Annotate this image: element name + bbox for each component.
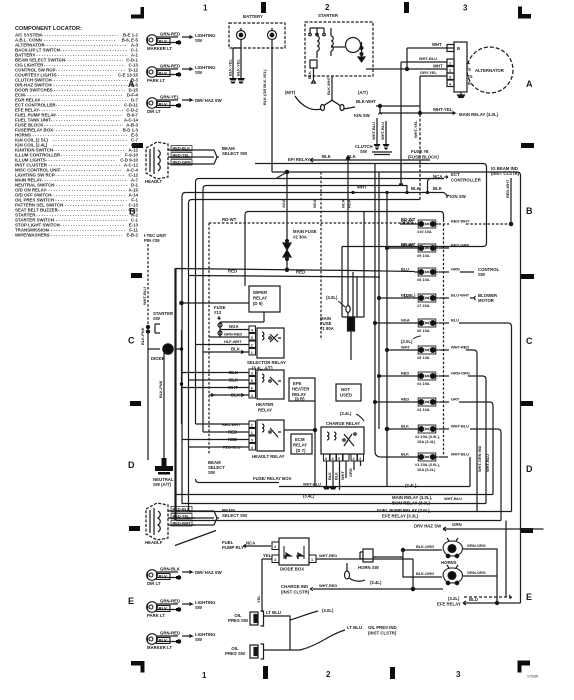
svg-text:E-B-2: E-B-2	[127, 233, 139, 238]
svg-text:DIR/ HAZ SW: DIR/ HAZ SW	[195, 98, 223, 103]
svg-text:0: 0	[338, 457, 340, 461]
fuse F10	[415, 220, 439, 228]
svg-text:GRN: GRN	[348, 468, 353, 477]
svg-text:STARTER: STARTER	[318, 13, 339, 18]
svg-text:GRN: GRN	[452, 522, 462, 527]
battery	[229, 23, 285, 48]
fuse F4	[415, 372, 439, 380]
connector dot of MARKER LT	[176, 40, 181, 44]
wire left bus verticals	[175, 268, 182, 520]
starter	[305, 22, 373, 76]
svg-text:(INST CLSTR): (INST CLSTR)	[281, 590, 310, 595]
svg-text:LT BLU: LT BLU	[266, 610, 281, 615]
svg-text:WHT-BLU: WHT-BLU	[451, 452, 469, 457]
battery ground wires BLK-YEL	[233, 40, 241, 79]
wire wiper relay drop	[220, 312, 264, 322]
svg-text:WHT-BLU: WHT-BLU	[142, 287, 147, 305]
junction dots on BLK row	[351, 191, 429, 194]
wire I-TEC dashed vertical	[147, 244, 149, 460]
arrow to LIGHTING	[182, 68, 192, 71]
svg-text:#8 10A: #8 10A	[417, 277, 430, 282]
tick mark bottom 2	[390, 667, 395, 679]
headlight symbol HEADLF	[146, 503, 168, 540]
svg-text:D: D	[128, 460, 135, 470]
svg-text:NOT: NOT	[341, 387, 350, 392]
svg-text:(3.0L): (3.0L)	[322, 608, 334, 613]
battery positive wire down	[271, 40, 273, 173]
svg-text:WHT-BLU: WHT-BLU	[451, 424, 469, 429]
svg-text:#13: #13	[214, 310, 222, 315]
wire EFE heater drop	[284, 401, 317, 487]
svg-text:WHT-RED: WHT-RED	[319, 583, 337, 588]
svg-text:PIN #29: PIN #29	[144, 238, 160, 243]
svg-text:(A/T): (A/T)	[358, 90, 368, 95]
arrow to BEAM SELECT SW	[214, 511, 219, 525]
svg-text:GRN-RED: GRN-RED	[224, 332, 242, 337]
charge relay box	[321, 427, 364, 454]
edge tick mark	[520, 401, 533, 406]
svg-text:BLK: BLK	[159, 574, 169, 579]
edge tick mark	[132, 143, 143, 148]
not used box	[336, 384, 361, 401]
wire efi relay row	[310, 158, 430, 162]
svg-text:BLK-YEL: BLK-YEL	[228, 59, 233, 76]
svg-text:SW: SW	[195, 637, 203, 642]
svg-text:CHARGE RELAY: CHARGE RELAY	[326, 421, 360, 426]
wire charge ind row	[310, 587, 443, 590]
svg-text:(FUSE BLOCK): (FUSE BLOCK)	[408, 155, 439, 160]
arrow to LIGHTING	[182, 36, 192, 39]
wire GRN-ORG 1	[463, 549, 497, 603]
svg-text:BLK: BLK	[159, 102, 169, 107]
svg-text:B: B	[457, 46, 460, 51]
wire ECT feed via corner	[428, 179, 445, 193]
svg-text:RED-WHT: RED-WHT	[451, 219, 470, 224]
arrow to DIR/ HAZ SW	[182, 99, 192, 102]
svg-text:FUSE/ RELAY BOX: FUSE/ RELAY BOX	[253, 476, 292, 481]
wire YEL to diode box	[262, 559, 272, 612]
heater relay feed wires	[182, 373, 250, 397]
svg-text:MARKER LT: MARKER LT	[147, 645, 172, 650]
oil pressure switch at y645	[250, 644, 264, 659]
wiper relay	[180, 286, 280, 312]
svg-text:SW: SW	[195, 605, 203, 610]
svg-text:BLK-PNK: BLK-PNK	[140, 327, 145, 345]
wire DRV HAZ SW row	[443, 527, 544, 531]
lamp connector MARKER LT	[147, 634, 158, 645]
svg-text:ECM: ECM	[295, 437, 305, 442]
svg-text:BOM RELAY (3.0L): BOM RELAY (3.0L)	[392, 501, 431, 506]
horn lower	[443, 565, 462, 585]
svg-text:HEATER: HEATER	[256, 402, 274, 407]
svg-text:BLK-ORG: BLK-ORG	[416, 571, 434, 576]
svg-text:BLU: BLU	[469, 597, 478, 602]
svg-text:10A (3.2L): 10A (3.2L)	[417, 467, 436, 472]
svg-text:HORN SW: HORN SW	[358, 565, 380, 570]
headlight symbol HEADLT	[146, 142, 168, 179]
svg-text:3: 3	[463, 4, 468, 13]
junction dots on bus	[180, 347, 183, 385]
svg-text:A: A	[526, 79, 533, 89]
svg-text:HEADLT: HEADLT	[145, 179, 162, 184]
wire RED-GRN of HEADLT	[168, 160, 214, 166]
heater relay pins	[249, 369, 256, 398]
svg-text:EFE RELAY (3.3L): EFE RELAY (3.3L)	[382, 514, 419, 519]
fuse F7	[415, 294, 439, 302]
wire BLK-WHT to junction	[376, 104, 420, 107]
starter main lead	[295, 76, 355, 111]
svg-text:#3 10A: #3 10A	[417, 407, 430, 412]
svg-text:SW: SW	[195, 70, 203, 75]
svg-text:RD-WT: RD-WT	[401, 217, 416, 222]
headlt relay pins	[249, 421, 256, 450]
svg-text:BLK: BLK	[433, 186, 443, 191]
svg-text:1: 1	[202, 671, 207, 680]
svg-text:(3.4L): (3.4L)	[405, 483, 417, 488]
svg-text:PARK LT: PARK LT	[147, 613, 165, 618]
svg-text:BLK: BLK	[401, 424, 409, 429]
svg-text:MAIN RELAY (3.0L),: MAIN RELAY (3.0L),	[392, 495, 432, 500]
svg-text:WIPER: WIPER	[253, 290, 268, 295]
svg-text:(9 R): (9 R)	[295, 397, 305, 402]
svg-text:WHT-BLU: WHT-BLU	[380, 122, 385, 140]
svg-text:MAIN FUSE: MAIN FUSE	[293, 229, 317, 234]
svg-text:GRN-BLK: GRN-BLK	[160, 567, 181, 572]
svg-text:2: 2	[251, 344, 253, 348]
wire GRN-YEL of DIR LT	[157, 100, 179, 108]
edge tick mark	[130, 401, 141, 406]
svg-text:3: 3	[251, 336, 253, 340]
svg-text:3: 3	[449, 76, 451, 80]
svg-text:BLK: BLK	[159, 638, 169, 643]
svg-text:MAIN RELAY (3.0L): MAIN RELAY (3.0L)	[459, 112, 498, 117]
svg-text:E: E	[526, 592, 532, 602]
svg-text:GRN-RED: GRN-RED	[160, 599, 180, 604]
svg-text:GRN-RED: GRN-RED	[160, 631, 180, 636]
svg-text:BLK-WHT: BLK-WHT	[356, 99, 376, 104]
svg-text:YEL: YEL	[263, 553, 272, 558]
svg-text:DIR/ HAZ SW: DIR/ HAZ SW	[195, 570, 223, 575]
svg-text:RED: RED	[401, 397, 409, 402]
wire nest top horizontals	[182, 164, 521, 604]
svg-text:DIR LT: DIR LT	[147, 581, 161, 586]
svg-text:2: 2	[325, 3, 330, 12]
charge relay grounds	[323, 487, 337, 490]
svg-text:WHT-YEL: WHT-YEL	[413, 120, 418, 138]
lamp connector DIR LT	[147, 570, 158, 581]
connector dot of DIR LT	[176, 575, 181, 579]
svg-text:WHT-BLU: WHT-BLU	[444, 496, 462, 501]
heater relay box	[257, 370, 284, 399]
svg-text:1: 1	[311, 558, 313, 562]
oil pressure switch at y612	[250, 611, 264, 626]
svg-text:HEADLF: HEADLF	[145, 540, 163, 545]
svg-text:3: 3	[456, 670, 461, 679]
svg-text:RELAY: RELAY	[293, 443, 307, 448]
wire LT BLU 1	[264, 611, 319, 628]
corner mark bottom-right	[518, 661, 531, 673]
svg-text:BLK: BLK	[327, 472, 332, 480]
svg-text:#1 80A: #1 80A	[320, 326, 334, 331]
svg-text:SELECT SW: SELECT SW	[222, 513, 248, 518]
wire RED-BLK of HEADLT	[168, 146, 214, 152]
svg-text:(INST CLSTR): (INST CLSTR)	[368, 631, 397, 636]
wire fuse13 to selector	[219, 330, 221, 338]
svg-text:BLU: BLU	[451, 318, 459, 323]
fuse F6	[415, 319, 439, 327]
fuse F9	[415, 244, 439, 252]
svg-text:IGN SW: IGN SW	[450, 194, 467, 199]
fuse F1	[415, 453, 439, 461]
svg-text:C: C	[128, 336, 135, 346]
svg-text:#10 10A: #10 10A	[417, 229, 432, 234]
svg-text:BLK (OR BLK-YEL): BLK (OR BLK-YEL)	[262, 69, 267, 105]
svg-text:E: E	[468, 81, 471, 86]
svg-text:HORNS: HORNS	[441, 560, 457, 565]
svg-text:S: S	[468, 67, 471, 72]
svg-text:GRN-RED: GRN-RED	[160, 32, 180, 37]
svg-text:EFI RELAY: EFI RELAY	[288, 157, 310, 162]
fuse left feed wires	[374, 224, 415, 457]
svg-text:BLK: BLK	[159, 71, 169, 76]
svg-text:WHT: WHT	[401, 345, 410, 350]
wire right vertical x506	[505, 521, 507, 598]
svg-text:NCA: NCA	[246, 541, 255, 546]
svg-text:GRN-ORG: GRN-ORG	[467, 543, 486, 548]
wire RED-WHT of HEADLF	[168, 521, 214, 527]
clutch switch grounds	[374, 144, 381, 150]
svg-text:SELECTOR RELAY: SELECTOR RELAY	[247, 360, 286, 365]
svg-text:BLK: BLK	[159, 39, 169, 44]
headlf2 bus links	[189, 511, 196, 525]
svg-text:WHT-BLU: WHT-BLU	[419, 56, 437, 61]
wire RED-YEL of HEADLF	[168, 514, 214, 520]
wire WHT-YEL main relay	[380, 76, 455, 200]
svg-text:BLK: BLK	[334, 472, 339, 480]
svg-text:WHT-BLU: WHT-BLU	[303, 482, 321, 487]
svg-text:MARKER LT: MARKER LT	[147, 46, 172, 51]
svg-text:IGN SW: IGN SW	[354, 113, 371, 118]
arrow to LIGHTING	[182, 635, 192, 638]
tick mark bottom 1	[263, 666, 268, 679]
svg-text:1: 1	[203, 4, 208, 13]
svg-text:HEATER: HEATER	[292, 387, 310, 392]
svg-text:RD-WT: RD-WT	[401, 242, 416, 247]
svg-text:HEADLT RELAY: HEADLT RELAY	[252, 454, 285, 459]
svg-text:BLU-WHT: BLU-WHT	[451, 293, 470, 298]
svg-text:2: 2	[449, 69, 451, 73]
edge tick mark	[131, 273, 142, 278]
svg-text:DIODE: DIODE	[151, 356, 165, 361]
svg-text:GRY-YEL: GRY-YEL	[420, 70, 438, 75]
lamp connector PARK LT	[147, 602, 158, 613]
starter switch	[146, 324, 160, 333]
svg-text:RED-WHT: RED-WHT	[173, 521, 192, 526]
clutch switch	[377, 118, 386, 144]
svg-text:IG: IG	[468, 74, 473, 79]
diode D1	[148, 344, 182, 354]
svg-text:NGA: NGA	[312, 199, 317, 208]
arrow to LIGHTING	[182, 603, 192, 606]
svg-text:(D 9): (D 9)	[253, 301, 263, 306]
svg-text:GRY: GRY	[451, 397, 460, 402]
svg-text:2: 2	[353, 457, 355, 461]
horn switch	[360, 549, 376, 562]
wire WHT to pin 2	[366, 68, 447, 70]
svg-text:PRES SW: PRES SW	[228, 618, 249, 623]
wire GRN-RED of MARKER LT	[157, 636, 179, 644]
svg-text:SELECT SW: SELECT SW	[222, 151, 248, 156]
selector relay pins	[249, 326, 256, 355]
svg-text:ALTERNATOR: ALTERNATOR	[475, 68, 505, 73]
lamp connector MARKER LT	[147, 35, 158, 46]
alternator connector	[447, 42, 467, 92]
svg-text:D: D	[526, 464, 533, 474]
svg-text:3: 3	[274, 558, 276, 562]
svg-text:COMPONENT LOCATOR:: COMPONENT LOCATOR:	[15, 26, 82, 32]
svg-text:SW: SW	[478, 272, 486, 277]
wire mid verticals	[342, 157, 403, 486]
svg-text:BLK: BLK	[231, 347, 241, 352]
wire IGN SW arrow	[444, 193, 450, 199]
wire nest bottom loops	[176, 479, 512, 521]
svg-text:RED: RED	[401, 371, 409, 376]
svg-text:GRN: GRN	[451, 267, 460, 272]
svg-text:RED-GRN: RED-GRN	[173, 160, 191, 165]
edge tick mark	[521, 274, 534, 279]
svg-text:BLK-ORG: BLK-ORG	[416, 544, 434, 549]
svg-text:GRN-ORG: GRN-ORG	[451, 371, 470, 376]
connector oval	[345, 563, 366, 581]
svg-text:PARK LT: PARK LT	[147, 78, 165, 83]
svg-text:BLK: BLK	[401, 452, 409, 457]
svg-text:RGA: RGA	[347, 199, 352, 208]
fuse F2	[415, 425, 439, 433]
wire GRN-RED of MARKER LT	[157, 37, 179, 45]
ground symbol battery left	[229, 78, 237, 84]
svg-text:WHT-BLU: WHT-BLU	[371, 122, 376, 140]
svg-text:MOTOR: MOTOR	[478, 298, 495, 303]
fuse right wires with cascade verticals	[439, 248, 512, 521]
svg-text:1: 1	[449, 62, 451, 66]
svg-text:FUEL PUMP RELAY (3.0L),: FUEL PUMP RELAY (3.0L),	[377, 508, 431, 513]
connector dot of PARK LT	[176, 72, 181, 76]
svg-text:WIPE/WASHERS: WIPE/WASHERS	[15, 233, 50, 238]
svg-text:RELAY: RELAY	[258, 408, 272, 413]
svg-text:PRES SW: PRES SW	[225, 651, 246, 656]
svg-text:RD-WT: RD-WT	[222, 217, 237, 222]
arrow to DIR/ HAZ SW	[182, 571, 192, 574]
svg-text:6: 6	[251, 387, 253, 391]
connector dot of DIR LT	[176, 103, 181, 107]
svg-text:SW: SW	[360, 149, 368, 154]
svg-text:WHT-BLU: WHT-BLU	[485, 454, 490, 472]
edge tick mark	[129, 526, 140, 531]
svg-text:#6 10A: #6 10A	[417, 328, 430, 333]
horn upper	[443, 538, 462, 558]
wires to horns	[373, 548, 442, 577]
charge relay bottom wires	[327, 461, 361, 490]
svg-text:NCA: NCA	[341, 199, 346, 208]
wire RED-BLK of HEADLF	[168, 507, 214, 513]
svg-text:ECT: ECT	[451, 172, 460, 177]
wire EFE relay row	[463, 601, 521, 605]
svg-text:RELAY: RELAY	[253, 296, 267, 301]
svg-text:WHT: WHT	[432, 42, 442, 47]
fuse F8	[415, 268, 439, 276]
svg-text:GRN-ORG: GRN-ORG	[467, 570, 486, 575]
svg-text:RED: RED	[296, 270, 305, 275]
svg-text:RED-YEL: RED-YEL	[173, 153, 191, 158]
svg-text:LT BLU: LT BLU	[347, 625, 362, 630]
svg-text:SW: SW	[153, 316, 161, 321]
svg-text:GRN-RED: GRN-RED	[160, 64, 180, 69]
wire GRN-RED of PARK LT	[157, 69, 179, 77]
wire GRN-BLK of DIR LT	[157, 572, 179, 580]
svg-text:#2 30A: #2 30A	[293, 235, 307, 240]
svg-text:3: 3	[251, 439, 253, 443]
svg-text:B: B	[526, 206, 533, 216]
svg-text:OIL PRES IND: OIL PRES IND	[368, 625, 397, 630]
tick mark top 1	[261, 2, 266, 13]
svg-text:RED: RED	[228, 269, 237, 274]
svg-text:AGA: AGA	[281, 199, 286, 208]
svg-text:BLK: BLK	[159, 606, 169, 611]
svg-text:BATTERY: BATTERY	[243, 14, 263, 19]
wire WHT to pin B	[405, 48, 454, 71]
svg-text:#5 10A: #5 10A	[417, 355, 430, 360]
svg-text:WHT-GRN IND: WHT-GRN IND	[477, 445, 482, 472]
svg-text:L: L	[468, 60, 471, 65]
main fuse #1 80A	[348, 317, 355, 360]
fuse F3	[415, 398, 439, 406]
svg-text:E: E	[128, 596, 134, 606]
svg-text:(D 7): (D 7)	[296, 448, 306, 453]
alternator ground	[458, 92, 465, 98]
wire RED-YEL of HEADLT	[168, 153, 214, 159]
svg-text:15A (3.4L): 15A (3.4L)	[417, 439, 436, 444]
svg-text:PUMP RLY: PUMP RLY	[222, 545, 244, 550]
svg-text:DIR LT: DIR LT	[147, 109, 161, 114]
svg-text:(3.0L): (3.0L)	[401, 339, 413, 344]
wire neutral sw vertical	[164, 353, 168, 458]
svg-text:#7 20A: #7 20A	[417, 303, 430, 308]
svg-text:2: 2	[274, 545, 276, 549]
svg-text:C: C	[526, 336, 533, 346]
svg-text:NGA: NGA	[229, 324, 239, 329]
svg-text:WHT-RED: WHT-RED	[451, 345, 469, 350]
wire GRN-ORG 2	[463, 575, 497, 577]
clutch ground bar	[372, 152, 392, 155]
diode box pins	[272, 542, 316, 563]
neutral switch	[155, 458, 173, 475]
svg-text:USED: USED	[340, 393, 352, 398]
wire diagonal to fuel pump rly	[175, 531, 216, 546]
svg-text:EFE: EFE	[293, 381, 301, 386]
svg-text:DIODE BOX: DIODE BOX	[280, 567, 304, 572]
wire RED bus	[176, 268, 415, 520]
main fuse #2 30A	[283, 172, 291, 268]
wire WHT-BLU to pin 1	[399, 62, 447, 184]
svg-text:SW: SW	[195, 38, 203, 43]
svg-text:(3.4L): (3.4L)	[340, 411, 352, 416]
svg-text:NGA: NGA	[401, 318, 410, 323]
wire GRN-RED of PARK LT	[157, 604, 179, 612]
headlt relay feed wires	[182, 424, 249, 447]
ground symbol battery right	[237, 78, 245, 84]
svg-text:3: 3	[251, 372, 253, 376]
svg-text:(3.0L): (3.0L)	[326, 295, 338, 300]
